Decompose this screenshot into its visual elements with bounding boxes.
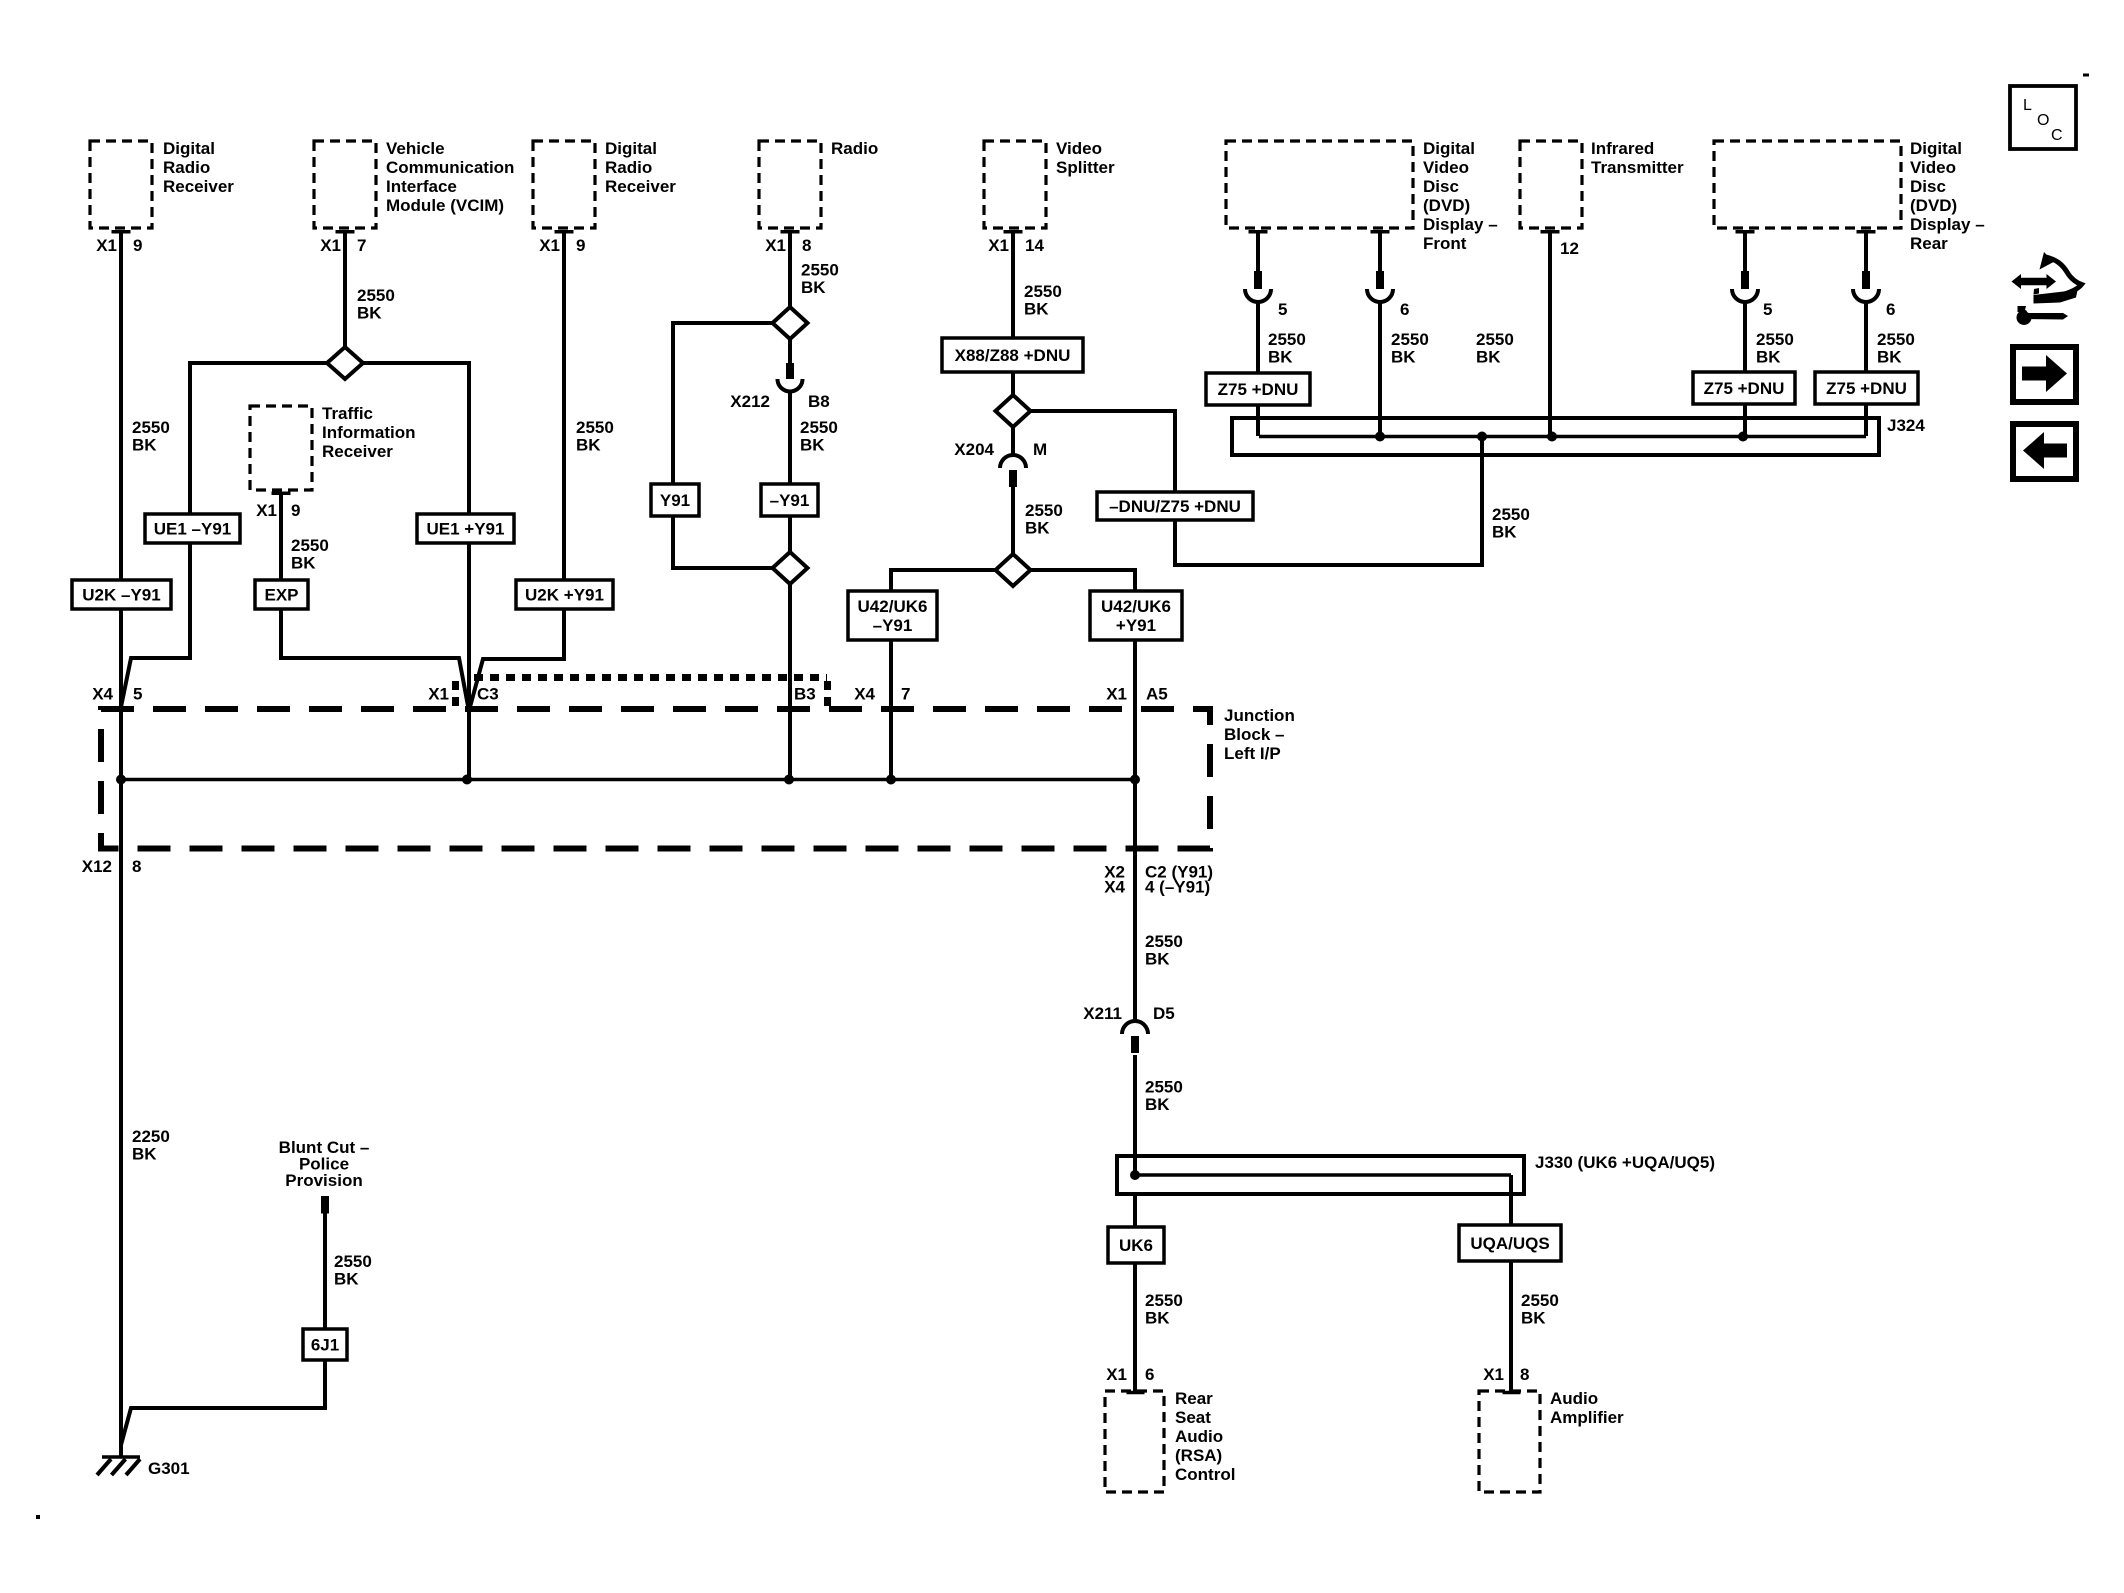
svg-text:2550: 2550	[1521, 1291, 1559, 1310]
svg-text:BK: BK	[1877, 348, 1902, 367]
svg-text:BK: BK	[132, 436, 157, 455]
svg-text:X1: X1	[1106, 1365, 1127, 1384]
svg-text:(DVD): (DVD)	[1910, 196, 1957, 215]
svg-text:Disc: Disc	[1423, 177, 1459, 196]
svg-text:BK: BK	[800, 436, 825, 455]
svg-text:Rear: Rear	[1910, 234, 1948, 253]
svg-text:G301: G301	[148, 1459, 190, 1478]
svg-text:Information: Information	[322, 423, 416, 442]
svg-text:Communication: Communication	[386, 158, 514, 177]
svg-text:A5: A5	[1146, 685, 1168, 704]
svg-text:Junction: Junction	[1224, 706, 1295, 725]
svg-text:X1: X1	[1106, 685, 1127, 704]
svg-text:9: 9	[576, 236, 585, 255]
svg-text:8: 8	[132, 857, 141, 876]
svg-text:7: 7	[901, 685, 910, 704]
svg-text:2250: 2250	[132, 1127, 170, 1146]
svg-text:Radio: Radio	[163, 158, 210, 177]
svg-text:2550: 2550	[576, 418, 614, 437]
svg-text:X1: X1	[256, 501, 277, 520]
svg-text:2550: 2550	[291, 536, 329, 555]
svg-text:X1: X1	[765, 236, 786, 255]
svg-text:2550: 2550	[357, 286, 395, 305]
svg-text:Y91: Y91	[660, 491, 690, 510]
svg-text:J330 (UK6 +UQA/UQ5): J330 (UK6 +UQA/UQ5)	[1535, 1153, 1715, 1172]
svg-text:–Y91: –Y91	[873, 616, 913, 635]
svg-text:U2K –Y91: U2K –Y91	[82, 586, 160, 605]
svg-text:Z75 +DNU: Z75 +DNU	[1218, 380, 1299, 399]
svg-text:X1: X1	[320, 236, 341, 255]
svg-text:Receiver: Receiver	[322, 442, 393, 461]
svg-text:14: 14	[1025, 236, 1044, 255]
svg-text:4 (–Y91): 4 (–Y91)	[1145, 878, 1210, 897]
svg-text:X211: X211	[1083, 1004, 1122, 1023]
svg-text:Digital: Digital	[163, 139, 215, 158]
svg-text:2550: 2550	[1492, 505, 1530, 524]
svg-text:Display –: Display –	[1423, 215, 1498, 234]
svg-text:C: C	[2051, 127, 2063, 144]
svg-text:Transmitter: Transmitter	[1591, 158, 1684, 177]
svg-text:U42/UK6: U42/UK6	[1101, 597, 1171, 616]
svg-text:X88/Z88 +DNU: X88/Z88 +DNU	[955, 346, 1071, 365]
svg-text:Digital: Digital	[1910, 139, 1962, 158]
svg-text:Digital: Digital	[605, 139, 657, 158]
svg-text:5: 5	[1278, 300, 1287, 319]
svg-text:X4: X4	[854, 685, 875, 704]
svg-text:2550: 2550	[1145, 1291, 1183, 1310]
svg-text:Video: Video	[1423, 158, 1469, 177]
svg-text:BK: BK	[1025, 519, 1050, 538]
svg-text:8: 8	[802, 236, 811, 255]
svg-text:Provision: Provision	[285, 1171, 362, 1190]
svg-text:(RSA): (RSA)	[1175, 1446, 1222, 1465]
svg-text:O: O	[2037, 112, 2049, 129]
svg-text:8: 8	[1520, 1365, 1529, 1384]
svg-text:M: M	[1033, 440, 1047, 459]
svg-text:Block –: Block –	[1224, 725, 1284, 744]
svg-text:BK: BK	[1391, 348, 1416, 367]
svg-text:2550: 2550	[1145, 1078, 1183, 1097]
svg-text:X12: X12	[82, 857, 112, 876]
svg-text:6: 6	[1400, 300, 1409, 319]
svg-text:Interface: Interface	[386, 177, 457, 196]
svg-text:Radio: Radio	[605, 158, 652, 177]
svg-text:Video: Video	[1056, 139, 1102, 158]
svg-text:Rear: Rear	[1175, 1389, 1213, 1408]
svg-text:Amplifier: Amplifier	[1550, 1408, 1624, 1427]
svg-text:Vehicle: Vehicle	[386, 139, 445, 158]
svg-text:BK: BK	[334, 1270, 359, 1289]
svg-text:EXP: EXP	[264, 586, 298, 605]
svg-text:UE1 +Y91: UE1 +Y91	[427, 520, 505, 539]
svg-text:–Y91: –Y91	[770, 491, 810, 510]
svg-text:2550: 2550	[334, 1252, 372, 1271]
svg-text:2550: 2550	[1025, 501, 1063, 520]
svg-text:Seat: Seat	[1175, 1408, 1211, 1427]
svg-text:Audio: Audio	[1175, 1427, 1223, 1446]
svg-text:2550: 2550	[1145, 932, 1183, 951]
svg-text:BK: BK	[1024, 300, 1049, 319]
svg-text:X204: X204	[954, 440, 994, 459]
svg-text:2550: 2550	[801, 261, 839, 280]
svg-text:7: 7	[357, 236, 366, 255]
svg-text:2550: 2550	[1268, 330, 1306, 349]
svg-text:B3: B3	[794, 685, 816, 704]
svg-text:BK: BK	[291, 554, 316, 573]
svg-text:Receiver: Receiver	[163, 177, 234, 196]
svg-text:2550: 2550	[1877, 330, 1915, 349]
svg-text:BK: BK	[1145, 950, 1170, 969]
svg-text:BK: BK	[1145, 1309, 1170, 1328]
svg-text:+Y91: +Y91	[1116, 616, 1156, 635]
svg-text:BK: BK	[1756, 348, 1781, 367]
svg-text:BK: BK	[576, 436, 601, 455]
svg-text:U2K +Y91: U2K +Y91	[525, 586, 604, 605]
svg-text:UK6: UK6	[1119, 1236, 1153, 1255]
svg-text:–DNU/Z75 +DNU: –DNU/Z75 +DNU	[1109, 497, 1241, 516]
svg-text:5: 5	[133, 685, 142, 704]
svg-text:2550: 2550	[1756, 330, 1794, 349]
svg-text:Z75 +DNU: Z75 +DNU	[1826, 379, 1907, 398]
svg-text:2550: 2550	[800, 418, 838, 437]
svg-text:BK: BK	[132, 1145, 157, 1164]
svg-text:X1: X1	[96, 236, 117, 255]
svg-text:Digital: Digital	[1423, 139, 1475, 158]
svg-text:BK: BK	[1476, 348, 1501, 367]
svg-text:X4: X4	[1104, 878, 1125, 897]
svg-text:X212: X212	[730, 392, 770, 411]
svg-text:Display –: Display –	[1910, 215, 1985, 234]
svg-text:Front: Front	[1423, 234, 1467, 253]
svg-text:6: 6	[1145, 1365, 1154, 1384]
svg-text:BK: BK	[1145, 1095, 1170, 1114]
svg-text:L: L	[2023, 97, 2032, 114]
svg-text:BK: BK	[357, 304, 382, 323]
svg-text:Module (VCIM): Module (VCIM)	[386, 196, 504, 215]
svg-text:12: 12	[1560, 239, 1579, 258]
svg-text:Left I/P: Left I/P	[1224, 744, 1281, 763]
svg-text:(DVD): (DVD)	[1423, 196, 1470, 215]
svg-text:BK: BK	[801, 278, 826, 297]
svg-text:Video: Video	[1910, 158, 1956, 177]
svg-text:UQA/UQS: UQA/UQS	[1470, 1234, 1549, 1253]
svg-text:Control: Control	[1175, 1465, 1235, 1484]
svg-text:X1: X1	[1483, 1365, 1504, 1384]
svg-text:Traffic: Traffic	[322, 404, 373, 423]
svg-text:UE1 –Y91: UE1 –Y91	[154, 520, 232, 539]
svg-text:Z75 +DNU: Z75 +DNU	[1704, 379, 1785, 398]
svg-text:J324: J324	[1887, 416, 1925, 435]
svg-text:6: 6	[1886, 300, 1895, 319]
svg-text:X1: X1	[539, 236, 560, 255]
svg-text:X1: X1	[988, 236, 1009, 255]
svg-text:5: 5	[1763, 300, 1772, 319]
svg-text:BK: BK	[1492, 523, 1517, 542]
svg-text:U42/UK6: U42/UK6	[858, 597, 928, 616]
svg-text:2550: 2550	[1391, 330, 1429, 349]
svg-text:9: 9	[291, 501, 300, 520]
svg-text:Audio: Audio	[1550, 1389, 1598, 1408]
svg-text:9: 9	[133, 236, 142, 255]
svg-text:D5: D5	[1153, 1004, 1175, 1023]
svg-text:X1: X1	[428, 685, 449, 704]
svg-text:BK: BK	[1268, 348, 1293, 367]
svg-text:2550: 2550	[1024, 282, 1062, 301]
svg-text:Infrared: Infrared	[1591, 139, 1654, 158]
svg-text:2550: 2550	[1476, 330, 1514, 349]
svg-text:6J1: 6J1	[311, 1336, 339, 1355]
svg-text:BK: BK	[1521, 1309, 1546, 1328]
svg-text:Splitter: Splitter	[1056, 158, 1115, 177]
svg-text:2550: 2550	[132, 418, 170, 437]
svg-text:C3: C3	[477, 685, 499, 704]
svg-text:Disc: Disc	[1910, 177, 1946, 196]
svg-text:X4: X4	[92, 685, 113, 704]
svg-text:Radio: Radio	[831, 139, 878, 158]
svg-text:B8: B8	[808, 392, 830, 411]
svg-text:Receiver: Receiver	[605, 177, 676, 196]
